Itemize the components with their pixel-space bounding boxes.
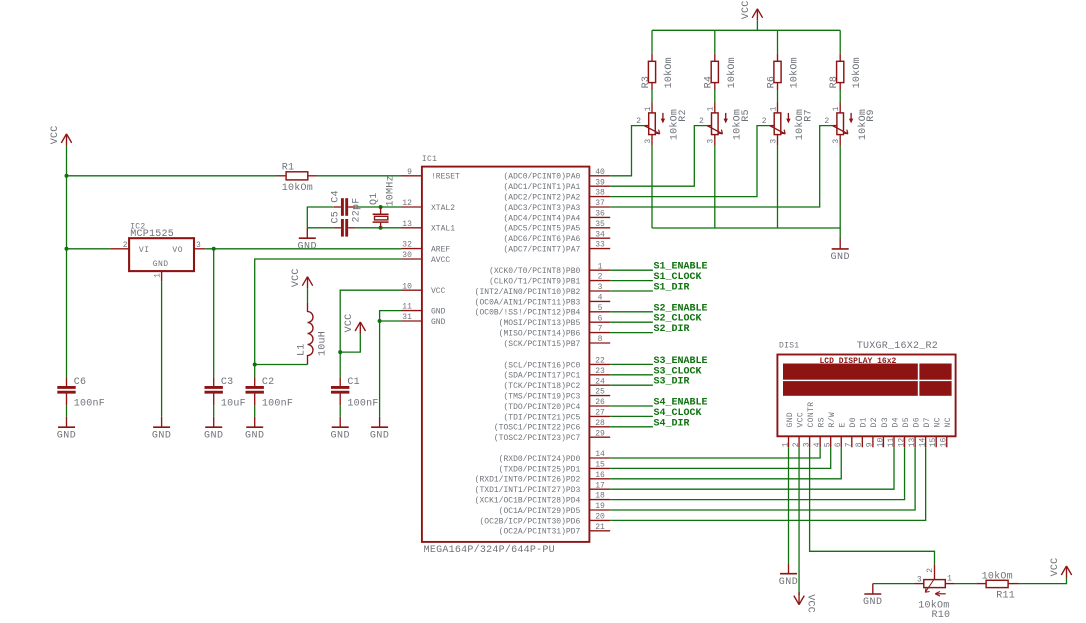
svg-text:VCC: VCC: [291, 268, 302, 287]
svg-text:25: 25: [595, 388, 605, 397]
wire net S1_CLOCK: [610, 280, 653, 282]
power VCC: [1050, 558, 1072, 578]
svg-text:1: 1: [598, 262, 603, 271]
svg-text:(SDA/PCINT17)PC1: (SDA/PCINT17)PC1: [503, 372, 580, 381]
IC1 pin 5 PB4: [475, 304, 611, 318]
svg-text:3: 3: [644, 139, 653, 144]
svg-text:(SCL/PCINT16)PC0: (SCL/PCINT16)PC0: [503, 361, 580, 370]
svg-text:26: 26: [595, 398, 605, 407]
wire net VCC: [66, 249, 68, 378]
wire net VCC: [1019, 578, 1067, 584]
svg-text:R2: R2: [678, 109, 689, 122]
wire net GND: [379, 321, 381, 417]
wire net VCC: [714, 30, 716, 54]
svg-text:12: 12: [402, 199, 412, 208]
ground: [330, 417, 350, 442]
svg-text:(ADC2/PCINT2)PA2: (ADC2/PCINT2)PA2: [503, 194, 580, 203]
ground: [298, 228, 318, 253]
svg-text:VCC: VCC: [1050, 558, 1061, 577]
wire net PA: [839, 90, 841, 103]
LCD pin 14 D7: [918, 417, 932, 447]
svg-text:R5: R5: [741, 109, 752, 122]
svg-text:D1: D1: [860, 417, 869, 427]
wire net S4_CLOCK: [610, 415, 653, 417]
svg-text:16: 16: [595, 471, 605, 480]
svg-text:15: 15: [929, 437, 938, 447]
svg-text:10kOm: 10kOm: [663, 57, 675, 88]
svg-text:S1_ENABLE: S1_ENABLE: [654, 262, 708, 273]
svg-text:VCC: VCC: [344, 314, 355, 333]
svg-text:2: 2: [636, 117, 641, 126]
ground: [57, 417, 77, 442]
svg-text:AREF: AREF: [431, 246, 450, 255]
svg-text:4: 4: [813, 442, 822, 447]
wire net VCC: [66, 176, 68, 249]
voltage reference IC2 MCP1525: [110, 222, 205, 281]
IC1 pin 26 PC4: [503, 398, 610, 412]
junction: [338, 350, 342, 354]
wire net GND: [788, 447, 790, 563]
svg-text:RS: RS: [817, 417, 826, 427]
svg-text:VCC: VCC: [50, 126, 61, 145]
svg-text:!RESET: !RESET: [431, 173, 460, 182]
wire net VCC: [798, 447, 800, 595]
junction: [65, 174, 69, 178]
resistor R3: [641, 54, 675, 90]
svg-text:VCC: VCC: [804, 594, 815, 613]
svg-text:20: 20: [595, 513, 605, 522]
svg-text:4: 4: [598, 294, 603, 303]
svg-text:10kOm: 10kOm: [851, 57, 863, 88]
svg-text:S4_DIR: S4_DIR: [654, 418, 690, 429]
IC1 pin 21 PD7: [499, 523, 611, 537]
svg-text:NC: NC: [934, 417, 943, 427]
svg-text:1: 1: [707, 106, 716, 111]
svg-text:10: 10: [876, 437, 885, 447]
IC1 pin 7 PB6: [499, 325, 611, 339]
wire net GND: [380, 311, 402, 321]
LCD pin 7 D0: [845, 417, 859, 447]
ground: [830, 239, 850, 264]
svg-text:R6: R6: [766, 76, 777, 89]
svg-text:VCC: VCC: [431, 287, 446, 296]
svg-text:3: 3: [769, 139, 778, 144]
LCD pin 13 D6: [908, 417, 922, 447]
svg-text:S4_ENABLE: S4_ENABLE: [654, 398, 708, 409]
wire net PA: [610, 126, 770, 197]
svg-text:6: 6: [598, 314, 603, 323]
wire net S3_ENABLE: [610, 363, 653, 365]
power VCC: [50, 126, 71, 146]
ground: [245, 417, 265, 442]
svg-text:10MHz: 10MHz: [385, 175, 396, 206]
svg-text:S2_DIR: S2_DIR: [654, 324, 690, 335]
IC1 pin 22 PC0: [503, 357, 610, 371]
svg-text:GND: GND: [204, 430, 224, 441]
wire net CONTR: [810, 447, 935, 564]
svg-text:10kOm: 10kOm: [789, 57, 801, 88]
svg-text:38: 38: [595, 189, 605, 198]
wire net PD: [610, 447, 894, 489]
svg-text:VO: VO: [172, 246, 183, 255]
wire net GND: [66, 405, 68, 417]
wire net S1_DIR: [610, 290, 653, 292]
wire net PD: [610, 447, 925, 520]
svg-text:11: 11: [887, 437, 896, 447]
IC1 pin 37 PA3: [503, 199, 610, 213]
svg-text:VI: VI: [139, 246, 150, 255]
wire net VCC: [67, 248, 111, 250]
svg-text:C4: C4: [330, 190, 341, 203]
junction: [212, 247, 216, 251]
svg-text:19: 19: [595, 502, 605, 511]
wire net GNDC: [651, 145, 653, 228]
svg-text:31: 31: [402, 313, 412, 322]
resistor R1: [277, 163, 318, 194]
IC1 pin 9 !RESET: [402, 168, 461, 182]
ground: [779, 563, 799, 588]
IC1 pin 11 GND: [402, 303, 446, 317]
IC1 pin 13 XTAL1: [402, 220, 456, 234]
wire net PA: [610, 126, 833, 207]
IC1 pin 18 PD4: [475, 492, 611, 506]
svg-text:(ADC7/PCINT7)PA7: (ADC7/PCINT7)PA7: [503, 246, 580, 255]
IC1 pin 23 PC1: [503, 367, 610, 381]
wire net PA: [610, 126, 707, 187]
svg-text:100nF: 100nF: [347, 398, 378, 409]
IC1 pin 14 PD0: [499, 450, 611, 464]
svg-text:R7: R7: [804, 109, 815, 122]
IC1 pin 17 PD3: [475, 481, 611, 495]
LCD pin 12 D5: [897, 417, 911, 447]
svg-text:R8: R8: [829, 76, 840, 89]
svg-text:(OC0A/AIN1/PCINT11)PB3: (OC0A/AIN1/PCINT11)PB3: [475, 298, 581, 307]
svg-text:S2_ENABLE: S2_ENABLE: [654, 303, 708, 314]
trimmer potentiometer R9: [824, 103, 877, 146]
svg-text:(OC2B/ICP/PCINT30)PD6: (OC2B/ICP/PCINT30)PD6: [479, 517, 580, 526]
svg-text:TUXGR_16X2_R2: TUXGR_16X2_R2: [857, 341, 938, 352]
wire net S3_CLOCK: [610, 374, 653, 376]
svg-text:GND: GND: [431, 318, 446, 327]
svg-text:(MISO/PCINT14)PB6: (MISO/PCINT14)PB6: [499, 330, 581, 339]
IC1 pin 39 PA1: [503, 178, 610, 192]
svg-text:GND: GND: [779, 577, 799, 588]
IC1 pin 25 PC3: [503, 388, 610, 402]
svg-text:D7: D7: [923, 417, 932, 427]
wire net GND: [161, 281, 163, 417]
wire net PD: [610, 447, 841, 479]
svg-text:(TDI/PCINT21)PC5: (TDI/PCINT21)PC5: [503, 413, 580, 422]
wire net VCC: [777, 30, 779, 54]
svg-text:D3: D3: [881, 417, 890, 427]
IC1 pin 30 AVCC: [402, 251, 451, 265]
svg-text:10uF: 10uF: [221, 398, 246, 409]
IC1 pin 12 XTAL2: [402, 199, 456, 213]
svg-text:100nF: 100nF: [74, 398, 105, 409]
svg-text:VCC: VCC: [741, 0, 752, 19]
wire net AVCC: [255, 364, 308, 366]
IC1 pin 10 VCC: [402, 282, 446, 296]
svg-text:37: 37: [595, 199, 605, 208]
wire net VCC: [651, 30, 653, 54]
LCD pin 4 RS: [813, 417, 827, 447]
svg-text:14: 14: [595, 450, 605, 459]
wire net VCC: [307, 288, 309, 303]
IC1 pin 31 GND: [402, 313, 446, 327]
svg-text:15: 15: [595, 461, 605, 470]
svg-text:R1: R1: [282, 163, 295, 174]
wire net RESET: [67, 175, 277, 177]
svg-text:MCP1525: MCP1525: [130, 229, 174, 240]
LCD glass row 1: [783, 364, 918, 380]
ground: [204, 417, 224, 442]
svg-text:12: 12: [897, 437, 906, 447]
svg-text:18: 18: [595, 492, 605, 501]
svg-text:(ADC6/PCINT6)PA6: (ADC6/PCINT6)PA6: [503, 235, 580, 244]
svg-text:(SCK/PCINT15)PB7: (SCK/PCINT15)PB7: [503, 340, 580, 349]
svg-text:GND: GND: [245, 430, 265, 441]
LCD pin 8 D1: [855, 417, 869, 447]
svg-text:C3: C3: [221, 377, 234, 388]
wire net GND: [254, 405, 256, 417]
svg-text:L1: L1: [296, 343, 307, 356]
IC1 pin 3 PB2: [475, 283, 611, 297]
wire net PD: [610, 447, 831, 468]
svg-text:1: 1: [154, 273, 163, 278]
IC1 pin 27 PC5: [503, 409, 610, 423]
svg-text:27: 27: [595, 409, 605, 418]
power VCC: [741, 0, 763, 20]
wire net XTAL1: [355, 227, 401, 229]
svg-text:AVCC: AVCC: [431, 256, 450, 265]
wire net PD: [610, 447, 820, 458]
svg-text:8: 8: [598, 335, 603, 344]
wire net AVCC: [254, 365, 256, 378]
svg-text:9: 9: [866, 442, 875, 447]
svg-text:28: 28: [595, 419, 605, 428]
svg-text:100nF: 100nF: [262, 398, 293, 409]
svg-text:(ADC1/PCINT1)PA1: (ADC1/PCINT1)PA1: [503, 183, 580, 192]
wire net AVCC: [255, 259, 402, 365]
svg-text:2: 2: [926, 568, 935, 573]
svg-text:C5: C5: [330, 211, 341, 224]
svg-text:GND: GND: [830, 252, 850, 263]
svg-text:7: 7: [845, 442, 854, 447]
svg-text:R11: R11: [996, 590, 1015, 601]
svg-text:10kOm: 10kOm: [282, 182, 313, 194]
svg-text:13: 13: [402, 220, 412, 229]
LCD pin 16 NC: [940, 417, 954, 447]
LCD pin 15 NC: [929, 417, 943, 447]
wire net GNDC: [777, 145, 779, 228]
svg-text:3: 3: [917, 576, 922, 585]
wire net VCC: [66, 145, 68, 175]
svg-text:GND: GND: [431, 308, 446, 317]
IC1 pin 16 PD2: [475, 471, 611, 485]
resistor R8: [829, 54, 863, 90]
trimmer potentiometer R10: [915, 564, 955, 621]
svg-text:24: 24: [595, 377, 605, 386]
IC1 pin 2 PB1: [489, 273, 610, 287]
wire net VCC: [340, 290, 401, 352]
svg-text:R9: R9: [866, 109, 877, 122]
svg-text:23: 23: [595, 367, 605, 376]
svg-text:(OC0B/!SS!/PCINT12)PB4: (OC0B/!SS!/PCINT12)PB4: [475, 309, 581, 318]
capacitor C4: [330, 190, 355, 216]
svg-text:(OC1A/PCINT29)PD5: (OC1A/PCINT29)PD5: [499, 507, 581, 516]
svg-text:C6: C6: [74, 377, 87, 388]
wire net GND: [213, 405, 215, 417]
svg-text:1: 1: [644, 106, 653, 111]
wire net VCC: [339, 352, 341, 378]
svg-text:Q1: Q1: [369, 192, 380, 205]
svg-text:1: 1: [781, 442, 790, 447]
svg-text:CONTR: CONTR: [807, 401, 816, 427]
wire net VCC: [340, 334, 360, 353]
svg-text:2: 2: [699, 117, 704, 126]
svg-text:GND: GND: [786, 412, 795, 428]
LCD pin 10 D3: [876, 417, 890, 447]
wire net S2_DIR: [610, 332, 653, 334]
wire net AREF: [205, 248, 401, 250]
IC1 pin 35 PA5: [503, 220, 610, 234]
svg-text:(RXD0/PCINT24)PD0: (RXD0/PCINT24)PD0: [499, 455, 581, 464]
wire net GND: [339, 405, 341, 417]
svg-text:C1: C1: [347, 377, 360, 388]
svg-text:13: 13: [908, 437, 917, 447]
svg-text:32: 32: [402, 241, 412, 250]
wire net VCC: [756, 20, 758, 30]
svg-text:6: 6: [834, 442, 843, 447]
wire net N1: [955, 583, 977, 585]
svg-text:S3_DIR: S3_DIR: [654, 377, 690, 388]
LCD pin 3 CONTR: [802, 401, 816, 447]
trimmer potentiometer R5: [699, 103, 752, 146]
svg-text:36: 36: [595, 210, 605, 219]
wire net VCC: [839, 30, 841, 54]
svg-text:MEGA164P/324P/644P-PU: MEGA164P/324P/644P-PU: [424, 544, 555, 556]
microcontroller IC1 MEGA164P/324P/644P-PU: [422, 155, 590, 556]
junction: [65, 247, 69, 251]
IC1 pin 19 PD5: [499, 502, 611, 516]
LCD pin 2 VCC: [792, 412, 806, 447]
IC1 pin 6 PB5: [499, 314, 611, 328]
svg-text:NC: NC: [944, 417, 953, 427]
wire net S4_DIR: [610, 426, 653, 428]
wire net GNDC: [839, 145, 841, 228]
svg-text:14: 14: [918, 437, 927, 447]
junction: [253, 363, 257, 367]
capacitor C2: [246, 377, 294, 409]
power VCC: [794, 592, 816, 613]
svg-text:9: 9: [407, 168, 412, 177]
capacitor C5: [330, 197, 362, 236]
LCD pin 6 E: [834, 422, 848, 447]
wire net S2_ENABLE: [610, 311, 653, 313]
crystal Q1 10MHz: [369, 175, 397, 228]
svg-text:(MOSI/PCINT13)PB5: (MOSI/PCINT13)PB5: [499, 319, 581, 328]
svg-text:2: 2: [598, 273, 603, 282]
svg-text:(ADC0/PCINT0)PA0: (ADC0/PCINT0)PA0: [503, 173, 580, 182]
svg-text:3: 3: [196, 241, 201, 250]
svg-text:GND: GND: [330, 430, 350, 441]
svg-text:1: 1: [832, 106, 841, 111]
IC1 pin 40 PA0: [503, 168, 610, 182]
wire net PD: [610, 447, 904, 499]
svg-text:(XCK1/OC1B/PCINT28)PD4: (XCK1/OC1B/PCINT28)PD4: [475, 497, 581, 506]
wire net PA: [714, 90, 716, 103]
svg-text:XTAL1: XTAL1: [431, 225, 455, 234]
svg-text:GND: GND: [152, 430, 172, 441]
svg-text:(TOSC2/PCINT23)PC7: (TOSC2/PCINT23)PC7: [494, 434, 581, 443]
IC1 pin 32 AREF: [402, 241, 451, 255]
svg-text:S1_CLOCK: S1_CLOCK: [654, 272, 702, 283]
trimmer potentiometer R2: [636, 103, 689, 146]
svg-text:R/W: R/W: [828, 412, 837, 428]
svg-text:16: 16: [940, 437, 949, 447]
wire net XTAL2: [307, 207, 334, 228]
svg-text:XTAL2: XTAL2: [431, 204, 455, 213]
svg-text:GND: GND: [370, 430, 390, 441]
LCD glass row 2: [783, 381, 918, 396]
svg-text:R10: R10: [932, 610, 951, 621]
IC1 pin 8 PB7: [503, 335, 610, 349]
wire net S4_ENABLE: [610, 405, 653, 407]
wire net GNDC: [714, 145, 716, 228]
svg-text:GND: GND: [153, 260, 169, 269]
power VCC: [344, 314, 366, 334]
svg-text:(XCK0/T0/PCINT8)PB0: (XCK0/T0/PCINT8)PB0: [489, 267, 580, 276]
power VCC: [291, 268, 313, 288]
wire net GND: [380, 320, 402, 322]
LCD pin 11 D4: [887, 417, 901, 447]
svg-text:33: 33: [595, 241, 605, 250]
svg-text:5: 5: [598, 304, 603, 313]
wire net PA: [610, 126, 645, 176]
svg-text:E: E: [839, 422, 848, 427]
wire net XTAL1: [307, 227, 334, 229]
svg-text:VCC: VCC: [796, 412, 805, 428]
svg-text:8: 8: [855, 442, 864, 447]
IC1 pin 1 PB0: [489, 262, 610, 276]
capacitor C3: [205, 377, 246, 409]
svg-text:39: 39: [595, 178, 605, 187]
wire net GNDC: [652, 228, 840, 239]
wire net PD: [610, 447, 915, 510]
svg-text:17: 17: [595, 481, 605, 490]
wire net AREF: [213, 249, 215, 378]
svg-text:S4_CLOCK: S4_CLOCK: [654, 408, 702, 419]
IC1 pin 29 PC7: [494, 429, 610, 443]
svg-text:(RXD1/INT0/PCINT26)PD2: (RXD1/INT0/PCINT26)PD2: [475, 476, 581, 485]
svg-text:2: 2: [792, 442, 801, 447]
svg-text:IC1: IC1: [422, 155, 437, 164]
svg-text:11: 11: [402, 303, 412, 312]
svg-text:2: 2: [824, 117, 829, 126]
wire net RESET: [318, 175, 402, 177]
wire net S2_CLOCK: [610, 321, 653, 323]
svg-text:(TOSC1/PCINT22)PC6: (TOSC1/PCINT22)PC6: [494, 424, 581, 433]
ground: [152, 417, 172, 442]
ground: [370, 417, 390, 442]
svg-text:D4: D4: [891, 417, 900, 427]
junction: [378, 319, 382, 323]
svg-text:21: 21: [595, 523, 605, 532]
svg-text:2: 2: [762, 117, 767, 126]
svg-text:29: 29: [595, 429, 605, 438]
svg-text:10uH: 10uH: [318, 331, 329, 356]
svg-text:10kOm: 10kOm: [726, 57, 738, 88]
